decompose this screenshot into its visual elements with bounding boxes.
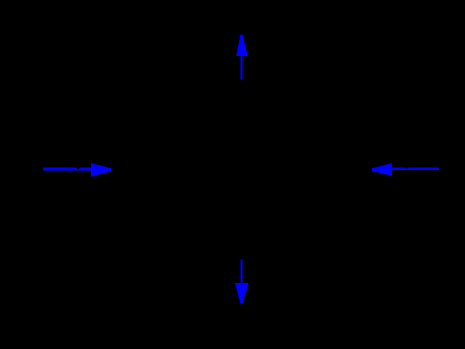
arrow UP (top, blue, outward) (236, 34, 247, 79)
arrow LEFT-pointing (right side, blue, inward) (372, 163, 439, 175)
arrow DOWN (bottom, blue, outward) (235, 260, 249, 304)
arrow RIGHT-pointing (left side, blue, inward) (43, 163, 111, 177)
